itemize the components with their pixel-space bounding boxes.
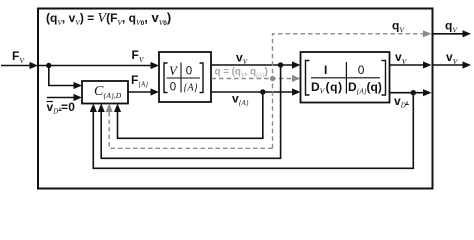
block U1 [V 0; 0 {A}] (159, 52, 211, 102)
svg-text:=: = (61, 100, 68, 114)
U1 right bracket (200, 63, 204, 93)
arrow into U2 top input (292, 61, 301, 68)
U2 right bracket (382, 61, 386, 96)
node vD feedback branch (411, 90, 416, 95)
arrow vV output (463, 61, 472, 68)
svg-text:0: 0 (358, 63, 365, 77)
wire FV inside to block U1 (38, 65, 152, 67)
U2 divider (345, 62, 347, 94)
wire vV output (390, 64, 424, 66)
arrow v{A} feedback into C (114, 104, 121, 113)
svg-text:I: I (324, 63, 327, 77)
svg-text:0: 0 (186, 66, 192, 78)
node q gray junction (270, 76, 275, 81)
arrow vV feedback into C (98, 104, 105, 113)
wire vD feedback loop (93, 93, 413, 169)
U2 left bracket (306, 61, 310, 96)
wire vV outside (433, 64, 463, 66)
wire vV feedback loop (101, 65, 280, 158)
wire vV between U1 and U2 (211, 64, 293, 66)
wire vbar=0 stub into C (47, 97, 75, 99)
arrow into block U1 top input (151, 62, 160, 69)
wire qV dashed top output (273, 34, 424, 149)
wire v{A} between U1 and U2 (211, 91, 293, 93)
svg-text:0: 0 (170, 82, 176, 94)
wire C output F{A} (128, 91, 152, 93)
block U2 [I/DV(q) 0/D{A}(q)] (301, 52, 390, 103)
arrow gray into U2 middle input (292, 75, 301, 82)
wire q feedback gray dashed loop (109, 108, 272, 148)
block C (controller C_{A},D) (82, 81, 128, 104)
arrow vD at boundary (423, 89, 432, 96)
node vV feedback branch (278, 62, 283, 67)
arrow into C top-left input (74, 82, 83, 89)
U1 dividers (180, 63, 182, 93)
arrow q feedback into C (106, 104, 113, 113)
arrow qV output (463, 30, 472, 37)
outer system boundary box (38, 9, 433, 189)
arrow gray qV at boundary (423, 30, 432, 37)
svg-text:DV(q): DV(q) (311, 80, 343, 96)
wire v{A} feedback loop (118, 92, 263, 138)
arrow into block U1 bottom input (151, 88, 160, 95)
arrow vV at boundary (423, 61, 432, 68)
wire FV input (1, 65, 30, 67)
wire vD output (390, 92, 424, 94)
node FV branch (46, 63, 51, 68)
node v{A} feedback branch (260, 89, 265, 94)
U1 left bracket (164, 63, 168, 93)
svg-text:(qV, vV) = V(FV, qV0, vV0): (qV, vV) = V(FV, qV0, vV0) (46, 10, 171, 27)
U2 fraction bar (311, 77, 380, 79)
wire q dashed gray between U1 and U2 (212, 78, 293, 80)
wire FV branch down to controller C (49, 66, 75, 86)
arrow vD feedback into C (90, 104, 97, 113)
svg-text:0: 0 (68, 100, 75, 114)
wire qV outside (433, 33, 463, 35)
arrow into boundary (30, 62, 39, 69)
svg-text:{A}: {A} (184, 83, 198, 94)
arrow into C bottom-left input (74, 94, 83, 101)
arrow into U2 bottom input (292, 88, 301, 95)
